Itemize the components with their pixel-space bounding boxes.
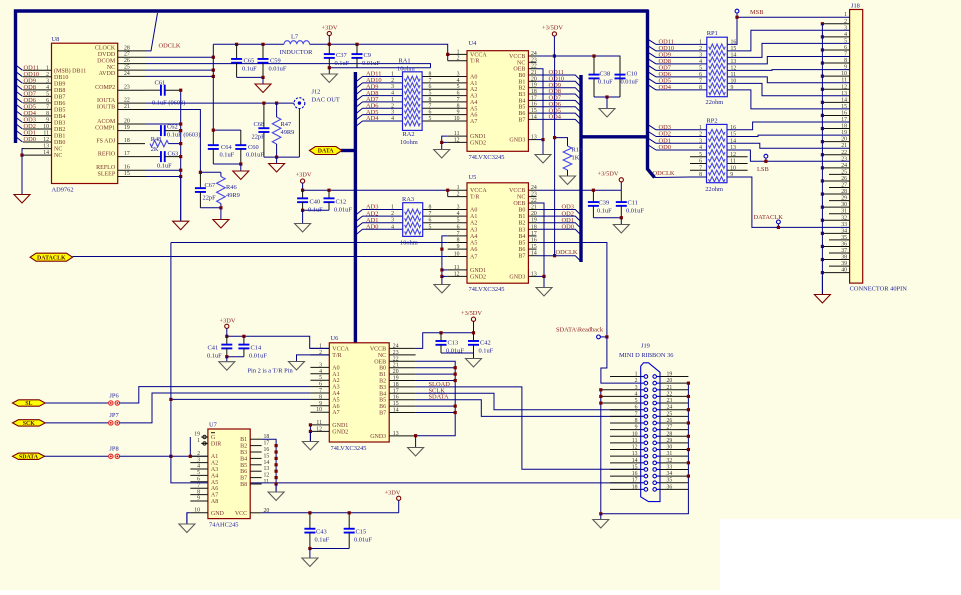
svg-text:T/R: T/R [470, 195, 479, 201]
junction [472, 331, 475, 334]
bus entry OD2 right [648, 131, 657, 137]
capacitor C11 [616, 190, 627, 218]
bus entry OD left OD8 [16, 84, 23, 90]
svg-text:9: 9 [457, 244, 460, 250]
junction [605, 335, 608, 338]
junction [328, 43, 331, 46]
junction [440, 248, 443, 251]
J19 pin circle right 29 [653, 441, 657, 445]
svg-text:8: 8 [319, 394, 322, 400]
junction [239, 162, 242, 165]
bus entry AD5 [355, 115, 362, 121]
capacitor C38 [589, 56, 600, 97]
junction [821, 22, 824, 25]
svg-text:12: 12 [43, 137, 49, 143]
svg-text:18: 18 [393, 382, 399, 388]
wire SDATA riser down J19 [171, 456, 641, 483]
svg-text:0.01uF: 0.01uF [626, 208, 644, 215]
svg-text:A6: A6 [470, 247, 477, 253]
svg-text:20: 20 [531, 211, 537, 217]
capacitor C43 [304, 513, 315, 549]
svg-text:COMP1: COMP1 [95, 125, 115, 131]
junction [179, 169, 182, 172]
U7 left pin 9 [190, 500, 208, 502]
svg-text:DATACLK: DATACLK [37, 255, 66, 261]
U8 left pin 5 [23, 95, 52, 97]
svg-text:SL: SL [25, 401, 32, 407]
svg-text:18: 18 [124, 138, 130, 144]
svg-text:CLOCK: CLOCK [95, 46, 116, 52]
U8 right pin 26 [118, 63, 145, 65]
J19 pin circle right 28 [653, 434, 657, 438]
J19 right stub in 27 [657, 429, 661, 431]
wire R47 stub top [276, 103, 278, 117]
junction [777, 226, 780, 229]
junction [821, 166, 824, 169]
ground C38 C10 [599, 97, 615, 117]
resistor R18 [563, 146, 582, 170]
J19 left pin line 6 [610, 409, 641, 411]
J19 pin circle right 19 [653, 375, 657, 379]
junction [275, 470, 278, 473]
U7 left pin 8 [190, 494, 208, 496]
U6 right pin 20 [389, 373, 415, 375]
svg-text:DVDD: DVDD [98, 52, 116, 58]
wire DATACLK to U5 A7 [73, 256, 448, 258]
U7 right pin 14 [250, 464, 261, 466]
svg-text:3: 3 [457, 72, 460, 78]
J19 pin circle right 35 [653, 481, 657, 485]
bus entry OD left OD4 [16, 110, 23, 116]
svg-text:MSB: MSB [750, 9, 764, 16]
wire R18 top link [555, 138, 568, 146]
J19 left pin line 17 [610, 482, 641, 484]
svg-text:G: G [211, 435, 216, 441]
U7 right pin 13 [250, 470, 261, 472]
U5 right pin 20 [528, 215, 536, 217]
junction [541, 138, 544, 141]
svg-text:AVDD: AVDD [99, 71, 116, 77]
svg-text:3: 3 [391, 218, 394, 224]
svg-text:23: 23 [531, 57, 537, 63]
svg-text:0.01uF: 0.01uF [621, 79, 639, 86]
svg-text:B7: B7 [379, 411, 386, 417]
RA zigzag row AD6 [405, 108, 421, 113]
svg-text:+3DV: +3DV [322, 25, 338, 32]
junction [348, 511, 351, 514]
svg-text:C64: C64 [221, 144, 232, 151]
U7 left pin 4 [190, 468, 208, 470]
svg-text:B3: B3 [240, 450, 247, 456]
U8 left pin 13 [22, 148, 52, 150]
J19 left pin line 5 [601, 402, 641, 404]
svg-text:9: 9 [197, 496, 200, 502]
svg-text:6: 6 [319, 382, 322, 388]
svg-text:REFIO: REFIO [98, 151, 116, 157]
wire U4 GND tie [442, 136, 448, 142]
svg-text:C62: C62 [167, 124, 178, 131]
U5 right pin 15 [528, 248, 536, 250]
wire RP2 pin13 to J18 pin23 [727, 150, 849, 161]
capacitor C12 [324, 190, 335, 210]
wire U6 VCCB rail [416, 333, 474, 349]
junction [275, 156, 278, 159]
svg-text:23: 23 [531, 192, 537, 198]
J18 even pin 30 [822, 206, 849, 208]
wire RP2 pin9 to J18 pin33 [727, 177, 849, 227]
U5 right pin 21 [528, 209, 536, 211]
J18 stub pin 35 [829, 239, 850, 241]
svg-text:2K: 2K [151, 146, 159, 153]
svg-text:VCC: VCC [235, 511, 247, 517]
J19 pin circle left 17 [644, 481, 648, 485]
svg-text:3: 3 [457, 205, 460, 211]
J19 left stub in 2 [641, 382, 644, 384]
junction [261, 43, 264, 46]
U6 left pin 9 [310, 405, 329, 407]
svg-text:B5: B5 [518, 105, 525, 111]
svg-text:6: 6 [46, 98, 49, 104]
U4 right pin 17 [528, 99, 536, 101]
svg-text:DB10: DB10 [54, 75, 68, 81]
svg-text:DB1: DB1 [54, 134, 65, 140]
svg-text:B2: B2 [240, 444, 247, 450]
junction [189, 455, 192, 458]
svg-text:DB9: DB9 [54, 81, 65, 87]
svg-text:6: 6 [429, 110, 432, 116]
svg-text:A0: A0 [470, 75, 477, 81]
svg-text:22: 22 [531, 64, 537, 70]
J19 pin circle left 6 [644, 408, 648, 412]
wire AD5 to RA [363, 114, 403, 116]
svg-text:B5: B5 [240, 463, 247, 469]
U5 right pin 18 [528, 228, 536, 230]
svg-text:17: 17 [124, 151, 130, 157]
svg-text:8: 8 [429, 205, 432, 211]
junction [179, 89, 182, 92]
svg-text:A7: A7 [332, 410, 339, 416]
svg-text:74LVXC3245: 74LVXC3245 [331, 445, 367, 452]
ground C64 C60 [233, 164, 249, 180]
bus entry OD left OD6 [16, 97, 23, 103]
svg-text:3: 3 [391, 110, 394, 116]
J19 right stub in 24 [657, 409, 661, 411]
junction [179, 155, 182, 158]
svg-text:INDUCTOR: INDUCTOR [280, 49, 314, 56]
svg-text:6: 6 [457, 224, 460, 230]
U4 right pin 18 [528, 93, 536, 95]
bus entry OD left OD5 [16, 104, 23, 110]
bus entry AD3 [355, 210, 362, 216]
svg-text:REFLO: REFLO [96, 165, 116, 171]
U6 right pin 22 [389, 360, 415, 362]
svg-text:A3: A3 [332, 385, 339, 391]
svg-text:5: 5 [197, 470, 200, 476]
junction [212, 129, 215, 132]
jumper JP8 [109, 454, 120, 458]
svg-text:IOUTA: IOUTA [97, 98, 116, 104]
junction [179, 175, 182, 178]
U5 left pin 11 [448, 269, 467, 271]
net flag MSB circle [735, 9, 739, 13]
wire RA3 to U5 pin 3 [423, 209, 467, 211]
svg-text:3: 3 [699, 52, 702, 58]
J19 pin circle right 36 [653, 488, 657, 492]
wire AD0 to RA3 [363, 228, 403, 230]
svg-text:2: 2 [391, 103, 394, 109]
svg-text:A3: A3 [211, 467, 218, 473]
svg-text:0.1uF: 0.1uF [335, 60, 350, 67]
svg-text:21: 21 [393, 363, 399, 369]
wire SL to JP6 [45, 402, 108, 404]
svg-text:12: 12 [454, 137, 460, 143]
capacitor C65 [231, 44, 242, 77]
U7 left pin 6 [190, 481, 208, 483]
svg-text:15: 15 [124, 171, 130, 177]
svg-text:A4: A4 [332, 391, 339, 397]
svg-text:T/R: T/R [332, 353, 341, 359]
svg-text:OD0: OD0 [24, 136, 36, 143]
U6 left pin 6 [310, 386, 329, 388]
junction [542, 275, 545, 278]
J19 left pin line 3 [601, 389, 641, 391]
svg-text:0.1uF (0603): 0.1uF (0603) [167, 131, 200, 138]
svg-text:6: 6 [457, 91, 460, 97]
wire RP1 pin13 to J18 pin7 [727, 57, 849, 64]
bus entry AD11 [355, 77, 362, 83]
J19 pin circle left 7 [644, 415, 648, 419]
capacitor C59 [258, 44, 269, 77]
bus entry OD left OD2 [16, 124, 23, 130]
ground C43 C15 [302, 549, 318, 567]
U4 right pin 13 [528, 139, 536, 141]
junction [179, 142, 182, 145]
svg-text:B8: B8 [240, 482, 247, 488]
wire SLEEP [145, 176, 181, 178]
J19 left stub in 8 [641, 422, 644, 424]
svg-text:1: 1 [197, 438, 200, 444]
J19 pin circle right 20 [653, 381, 657, 385]
U6 left pin 12 [310, 430, 329, 432]
wire DATACLK stem [777, 224, 779, 227]
bus entry AD10 [355, 83, 362, 89]
wire AD2 to RA3 [363, 215, 403, 217]
junction [599, 401, 602, 404]
svg-text:4: 4 [699, 145, 702, 151]
buffer U6 box 74LVXC3245 [329, 343, 389, 442]
power +3DV U5 [296, 172, 312, 191]
U8 right pin 17 [118, 156, 145, 158]
port DATA [309, 147, 342, 155]
bus entry OD left OD0 [16, 137, 23, 143]
junction [687, 395, 690, 398]
svg-text:13: 13 [264, 466, 270, 472]
resistor R46 [217, 177, 240, 204]
svg-text:6: 6 [699, 72, 702, 78]
svg-text:21: 21 [124, 104, 130, 110]
svg-text:SDATA: SDATA [429, 394, 449, 401]
junction [169, 398, 172, 401]
U6 left pin 10 [310, 411, 329, 413]
svg-text:T/R: T/R [470, 59, 479, 65]
svg-text:13: 13 [531, 135, 537, 141]
svg-text:7: 7 [429, 211, 432, 217]
svg-text:A5: A5 [470, 241, 477, 247]
wire U5 ODCLK out [537, 256, 582, 262]
J19 right stub in 35 [657, 482, 661, 484]
svg-text:8: 8 [457, 103, 460, 109]
RA3 zigzag row AD0 [405, 229, 421, 234]
U8 right pin 15 [118, 176, 145, 178]
RP1 zigzag row 8 [709, 90, 726, 95]
svg-text:DB0: DB0 [54, 140, 65, 146]
J19 left stub in 15 [641, 468, 644, 470]
RA3 zigzag row AD2 [405, 216, 421, 221]
wire AD1 to RA3 [363, 222, 403, 224]
wire U6 OEB tie [416, 361, 456, 435]
wire LSB stem [765, 158, 767, 161]
J19 pin circle left 14 [644, 461, 648, 465]
J19 left stub in 10 [641, 435, 644, 437]
junction [308, 511, 311, 514]
svg-text:C68: C68 [254, 121, 265, 128]
buffer U5 box 74LVXC3245 [467, 183, 528, 283]
J19 pin circle right 24 [653, 408, 657, 412]
svg-text:Pin 2 is a T/R Pin: Pin 2 is a T/R Pin [248, 368, 294, 375]
junction [821, 88, 824, 91]
J18 even pin 6 [822, 49, 849, 51]
svg-text:23: 23 [393, 350, 399, 356]
J19 right stub in 26 [657, 422, 661, 424]
junction [309, 430, 312, 433]
J19 pin circle right 22 [653, 395, 657, 399]
U5 right pin 23 [528, 196, 536, 198]
U7 right pin 16 [250, 451, 261, 453]
svg-text:21: 21 [531, 70, 537, 76]
ground U4 GND3 [535, 140, 551, 163]
J19 pin circle right 32 [653, 461, 657, 465]
J19 left stub in 9 [641, 429, 644, 431]
J19 left stub in 4 [641, 395, 644, 397]
J19 right pin line 30 [660, 449, 688, 451]
U5 right pin 14 [528, 255, 536, 257]
svg-text:GND3: GND3 [509, 138, 525, 144]
capacitor C62 [145, 125, 181, 136]
svg-text:22ohm: 22ohm [705, 186, 723, 193]
wire AD10 to RA [363, 82, 403, 84]
U6 right pin 21 [389, 367, 415, 369]
svg-text:15: 15 [393, 401, 399, 407]
ground U5 GND3 [536, 276, 552, 296]
svg-text:DB3: DB3 [54, 121, 65, 127]
U8 left pin 2 [23, 76, 52, 78]
junction [242, 335, 245, 338]
bus entry OD0 right [648, 145, 657, 151]
wire C68 R47 bottom rail [264, 156, 300, 158]
J19 right stub in 31 [657, 455, 661, 457]
svg-text:1K: 1K [572, 155, 580, 162]
J19 pin circle left 12 [644, 448, 648, 452]
J19 left stub in 3 [641, 389, 644, 391]
wire U7 B tie [262, 439, 277, 492]
junction [599, 395, 602, 398]
wire U6 GND tie [309, 425, 311, 442]
svg-text:14: 14 [531, 251, 537, 257]
svg-text:DB8: DB8 [54, 88, 65, 94]
svg-text:7: 7 [319, 388, 322, 394]
U4 left pin 11 [448, 135, 467, 137]
wire U4 OD4 out [537, 119, 582, 125]
RP2 unused right stub [727, 163, 747, 165]
wire IOUTB [145, 110, 200, 173]
svg-text:4: 4 [197, 464, 200, 470]
wire U6 VCCA feed [227, 336, 329, 348]
svg-text:10ohm: 10ohm [397, 66, 415, 73]
bus DATA stub [341, 149, 355, 152]
wire C37 C9 bottom rail DCOM [329, 67, 430, 69]
svg-text:17: 17 [264, 441, 270, 447]
svg-text:B1: B1 [379, 372, 386, 378]
svg-text:GND1: GND1 [470, 268, 486, 274]
bus entry OD8 right [648, 58, 657, 64]
svg-text:3: 3 [197, 457, 200, 463]
svg-text:12: 12 [264, 473, 270, 479]
svg-text:A2: A2 [332, 378, 339, 384]
U8 right pin 25 [118, 69, 145, 71]
wire OD1 to RP2 [656, 142, 707, 144]
RP2 zigzag row 5 [709, 156, 726, 161]
wire R47 stub bot [276, 144, 278, 157]
wire RA3 to U5 pin 4 [423, 215, 467, 217]
wire U5 OD3 out [537, 210, 582, 216]
svg-text:7: 7 [457, 97, 460, 103]
U6 right pin 23 [389, 354, 415, 356]
U4 right pin 20 [528, 80, 536, 82]
J18 even pin 10 [822, 75, 849, 77]
junction [553, 54, 556, 57]
svg-text:A5: A5 [332, 397, 339, 403]
junction [821, 271, 824, 274]
svg-text:C13: C13 [448, 339, 459, 346]
svg-text:FS ADJ: FS ADJ [96, 138, 116, 144]
J19 right stub in 36 [657, 488, 661, 490]
wire U6 unused B [416, 412, 456, 414]
U5 left pin 2 [448, 196, 467, 198]
J19 right pin line 24 [660, 409, 688, 411]
junction [446, 53, 449, 56]
RA zigzag row AD8 [405, 95, 421, 100]
U8 right pin 27 [118, 56, 145, 58]
svg-text:1: 1 [457, 185, 460, 191]
svg-text:3: 3 [319, 362, 322, 368]
capacitor C41 [221, 336, 232, 356]
J19 left stub in 18 [641, 488, 644, 490]
U5 left pin 9 [448, 248, 467, 250]
J18 even pin 40 [822, 272, 849, 274]
J19 right pin line 20 [660, 382, 688, 384]
svg-text:R48: R48 [151, 136, 162, 143]
J18 even pin 36 [822, 245, 849, 247]
ground C65 C59 [255, 77, 271, 92]
J19 left pin line 16 [610, 475, 641, 477]
svg-text:DCOM: DCOM [97, 58, 116, 64]
J19 left stub in 13 [641, 455, 644, 457]
svg-text:U8: U8 [52, 36, 60, 43]
svg-text:B4: B4 [518, 234, 525, 240]
svg-text:U7: U7 [209, 422, 218, 429]
J19 left pin line 4 [601, 395, 641, 397]
bus entry OD10 right [648, 45, 657, 51]
